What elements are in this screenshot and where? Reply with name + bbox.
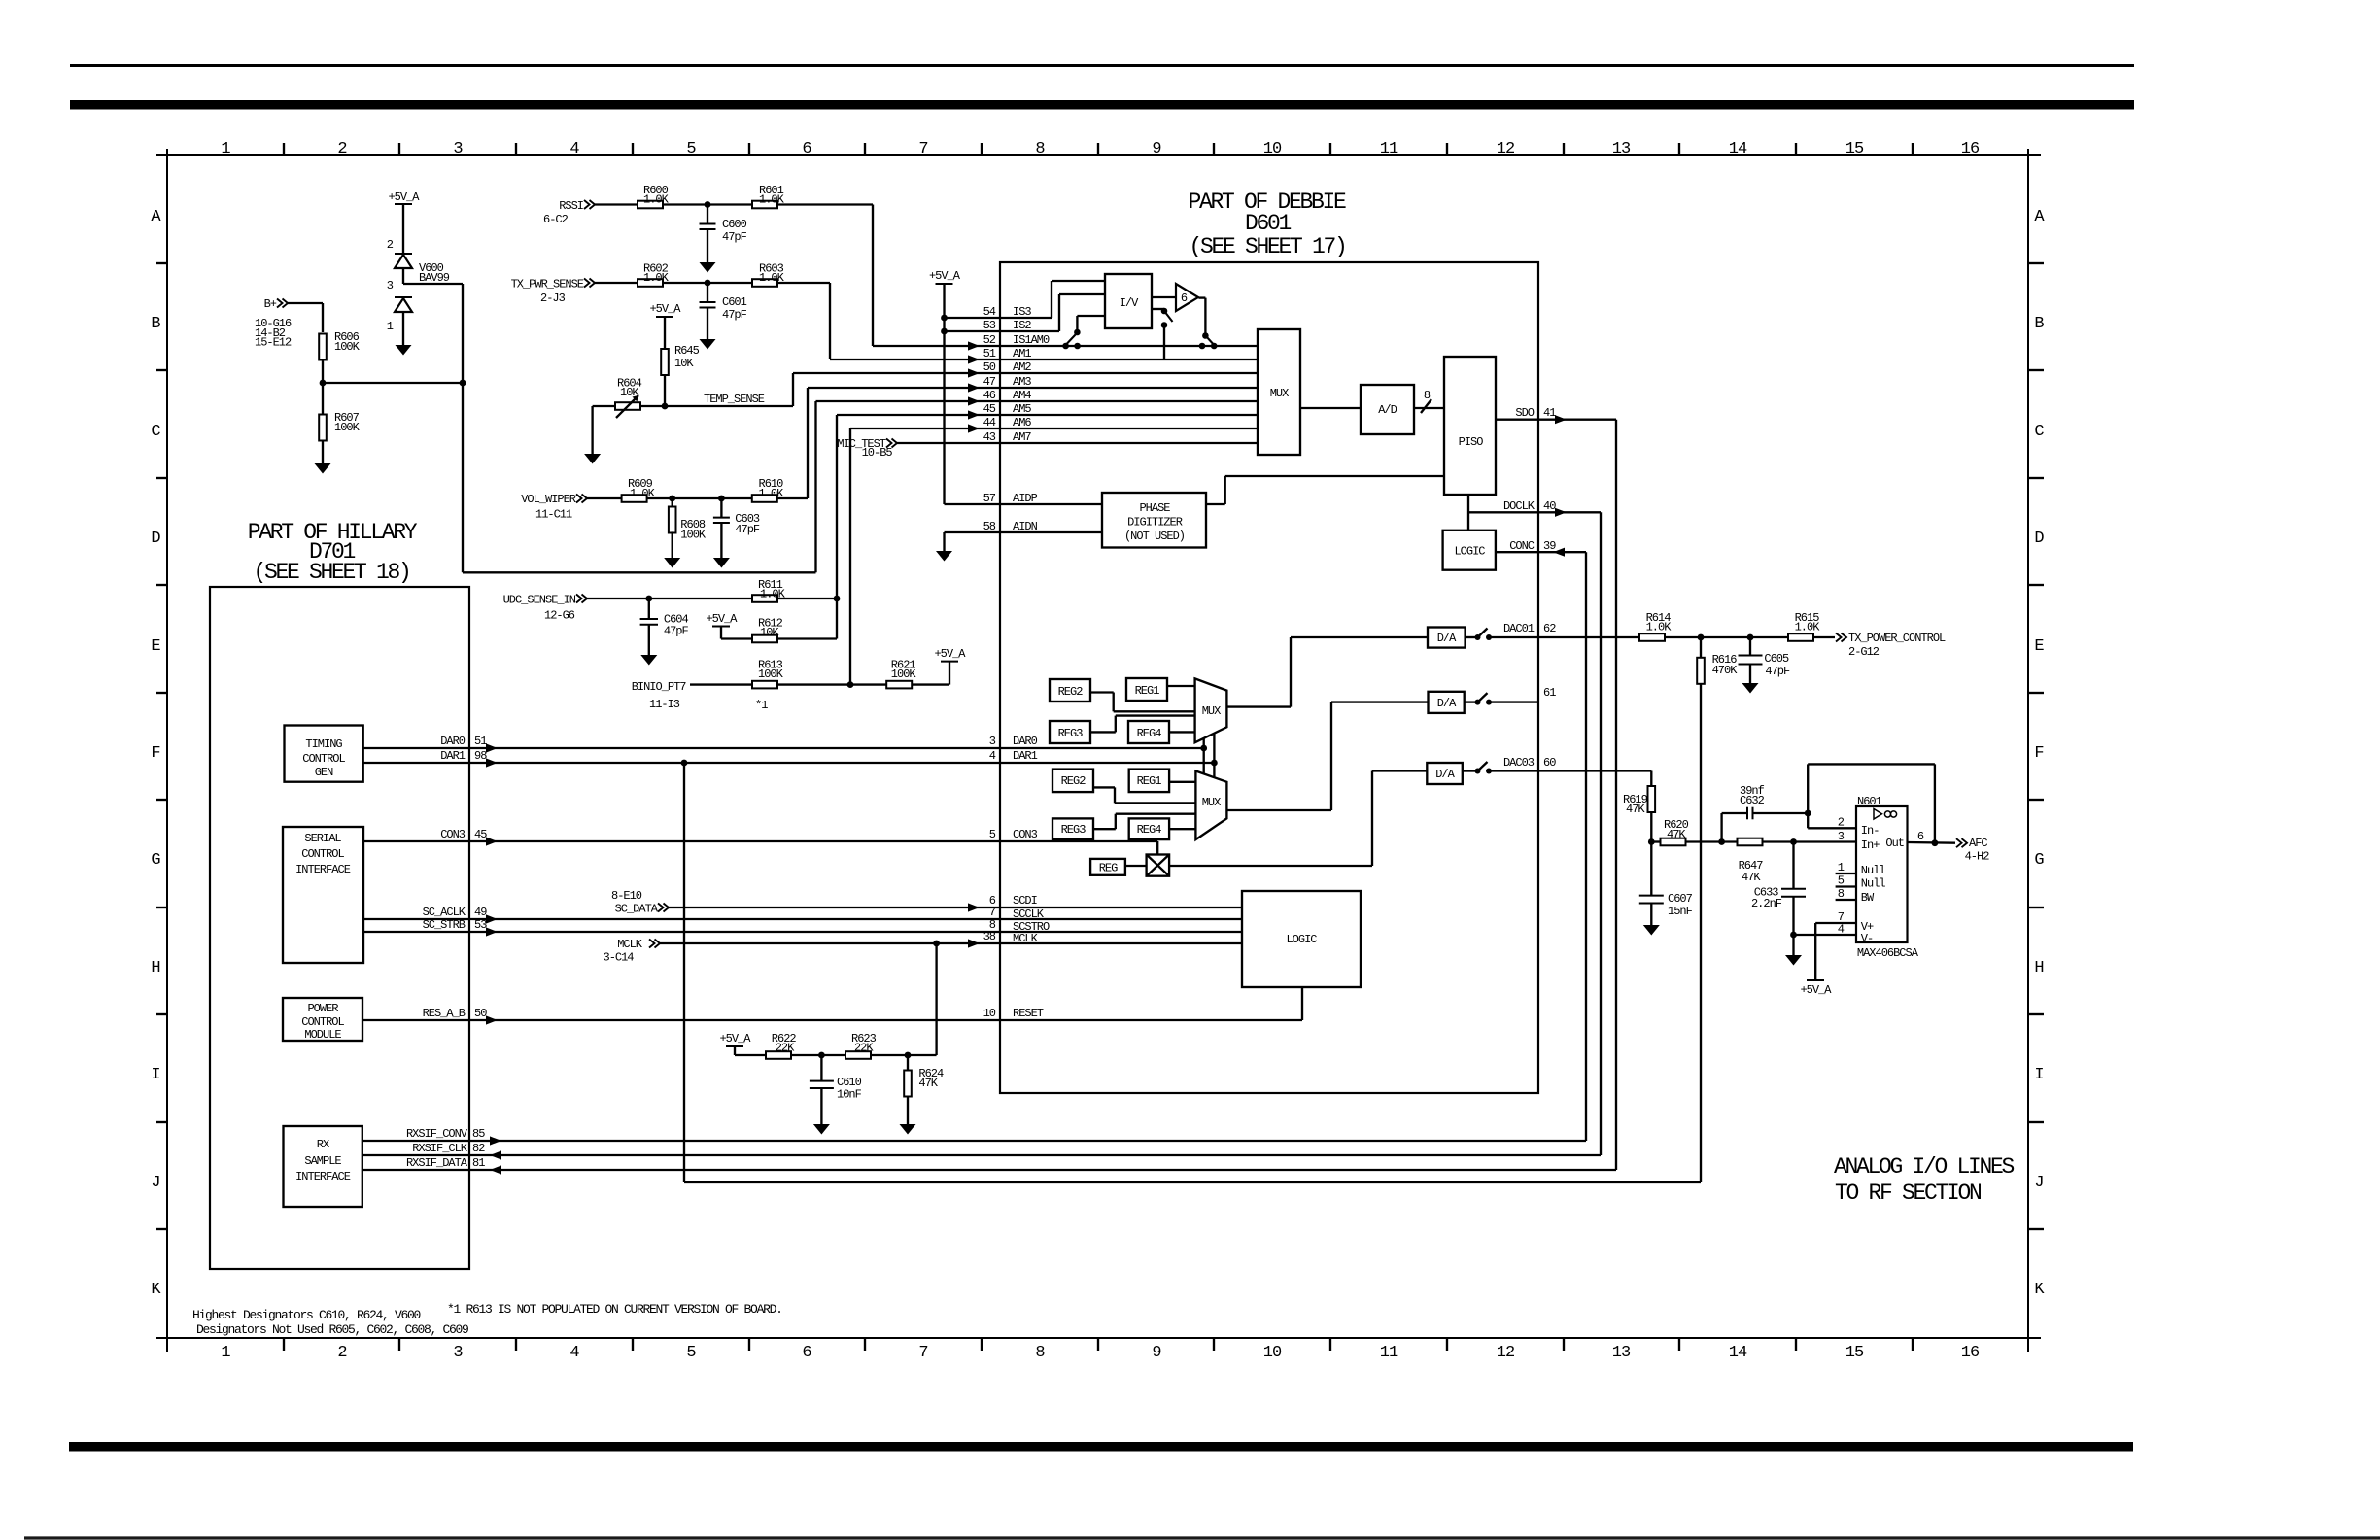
svg-text:47: 47	[983, 375, 996, 389]
svg-text:15-E12: 15-E12	[255, 336, 292, 350]
register REG1 lower	[1129, 770, 1169, 793]
mux trapezoid lower	[1195, 771, 1226, 840]
power +5V_A R612	[712, 626, 730, 628]
svg-text:REG2: REG2	[1061, 774, 1087, 788]
select stubs DAR0 DAR1 to muxes	[1203, 738, 1205, 774]
resistor R602	[638, 279, 663, 287]
ground arrow V600	[396, 345, 412, 356]
resistor R614	[1639, 633, 1665, 641]
svg-text:12: 12	[1497, 1344, 1514, 1362]
svg-text:11: 11	[1380, 1344, 1398, 1362]
svg-text:100K: 100K	[334, 421, 361, 434]
svg-text:POWER: POWER	[307, 1002, 338, 1015]
svg-text:+5V_A: +5V_A	[929, 269, 961, 283]
svg-text:MUX: MUX	[1202, 796, 1221, 809]
svg-text:57: 57	[983, 492, 996, 505]
svg-text:6: 6	[1181, 291, 1188, 305]
svg-text:J: J	[151, 1174, 159, 1192]
svg-text:(SEE SHEET 17): (SEE SHEET 17)	[1189, 234, 1345, 259]
svg-text:D: D	[2034, 530, 2044, 548]
svg-text:*1 R613 IS NOT POPULATED ON CU: *1 R613 IS NOT POPULATED ON CURRENT VERS…	[447, 1302, 782, 1317]
pin 53 SC_STRB row / SCSTRO	[469, 931, 1242, 933]
ground arrow C607	[1643, 925, 1660, 936]
pin 52 IS1AM0	[873, 345, 1258, 347]
svg-text:14: 14	[1729, 140, 1747, 158]
svg-text:22K: 22K	[854, 1042, 874, 1055]
svg-text:10K: 10K	[674, 357, 694, 370]
svg-text:15nF: 15nF	[1668, 905, 1693, 918]
svg-text:4: 4	[569, 140, 579, 158]
register REG4 upper	[1128, 721, 1169, 743]
power +5V_A rail top left	[395, 203, 412, 205]
svg-text:DAC01: DAC01	[1503, 622, 1535, 635]
logic box small	[1443, 530, 1496, 570]
svg-text:RES_A_B: RES_A_B	[423, 1007, 466, 1020]
svg-text:9: 9	[1152, 1344, 1161, 1362]
svg-text:PHASE: PHASE	[1139, 501, 1170, 515]
svg-text:A/D: A/D	[1378, 403, 1397, 417]
svg-text:47pF: 47pF	[722, 230, 747, 244]
svg-text:MUX: MUX	[1270, 387, 1289, 400]
switch 61	[1465, 701, 1476, 702]
register REG1 upper	[1126, 678, 1167, 701]
capacitor C605	[1749, 637, 1751, 656]
wire rx iface to edge	[362, 1140, 469, 1142]
output TX_POWER_CONTROL	[1813, 636, 1835, 638]
svg-text:AM4: AM4	[1013, 389, 1031, 402]
svg-text:AM7: AM7	[1013, 430, 1031, 444]
svg-text:TO RF SECTION: TO RF SECTION	[1835, 1181, 1981, 1206]
pin 50 AM2	[793, 372, 1258, 374]
wires REG lower group	[1169, 781, 1195, 783]
register REG3 upper	[1050, 721, 1090, 743]
svg-text:DAR0: DAR0	[1013, 735, 1038, 748]
wire	[663, 203, 752, 205]
pin 62 DAC01 wire	[1489, 636, 1639, 638]
resistor R624	[907, 1055, 909, 1072]
svg-text:12: 12	[1497, 140, 1514, 158]
mux trapezoid upper	[1195, 678, 1227, 742]
svg-text:4: 4	[569, 1344, 579, 1362]
bus A/D to PISO width 8	[1414, 407, 1444, 409]
power +5V_A R621	[941, 661, 958, 663]
svg-text:B: B	[2034, 315, 2044, 333]
pin 54 IS3	[945, 317, 1052, 319]
switch amp output to IS1AM0	[1198, 296, 1205, 298]
wire BINIO node to pin44	[849, 428, 851, 685]
svg-text:IS3: IS3	[1013, 305, 1031, 319]
op-amp I/V box	[1105, 274, 1152, 328]
svg-text:8: 8	[1035, 1344, 1045, 1362]
svg-text:11: 11	[1380, 140, 1398, 158]
diode V600 lower	[395, 296, 412, 298]
svg-text:D/A: D/A	[1435, 768, 1455, 781]
pin 47 AM3	[808, 387, 1258, 389]
svg-text:SC_STRB: SC_STRB	[423, 918, 466, 932]
wire lower MUX out to D/A 61	[1226, 809, 1331, 811]
svg-text:REG1: REG1	[1137, 774, 1162, 788]
switch DAC03	[1463, 770, 1476, 771]
svg-text:TEMP_SENSE: TEMP_SENSE	[704, 393, 765, 406]
svg-text:(NOT USED): (NOT USED)	[1124, 530, 1185, 543]
svg-text:SC_DATA: SC_DATA	[615, 903, 659, 916]
svg-text:2-G12: 2-G12	[1848, 645, 1880, 659]
svg-text:REG1: REG1	[1135, 684, 1160, 698]
pin 85 RXSIF_CONV row	[469, 1140, 1586, 1142]
wire timing gen to edge	[363, 747, 469, 749]
svg-text:+5V_A: +5V_A	[934, 647, 966, 661]
svg-text:D/A: D/A	[1437, 632, 1457, 645]
svg-text:H: H	[151, 959, 159, 977]
svg-text:Highest Designators C610, R624: Highest Designators C610, R624, V600	[192, 1308, 421, 1322]
resistor R611	[752, 595, 777, 602]
switch I/V input from IS1AM0	[1077, 315, 1105, 317]
ground arrow C633	[1792, 935, 1794, 955]
svg-text:BINIO_PT7: BINIO_PT7	[632, 680, 687, 694]
converter D/A DAC01	[1428, 628, 1466, 648]
svg-text:MAX406BCSA: MAX406BCSA	[1857, 946, 1919, 960]
svg-text:16: 16	[1961, 1344, 1980, 1362]
svg-text:REG4: REG4	[1137, 823, 1162, 837]
svg-text:F: F	[151, 744, 159, 763]
pin 41 SDO	[1496, 419, 1616, 421]
pin 46 AM4	[816, 400, 1259, 402]
capacitor C601	[707, 283, 708, 302]
svg-text:VOL_WIPER: VOL_WIPER	[521, 493, 576, 506]
svg-text:D/A: D/A	[1437, 697, 1457, 710]
svg-text:51: 51	[474, 735, 487, 748]
svg-text:49: 49	[474, 906, 487, 919]
svg-text:E: E	[151, 637, 160, 656]
wire upper MUX out to D/A DAC01	[1226, 705, 1291, 707]
resistor R609	[622, 495, 647, 502]
svg-text:C605: C605	[1764, 652, 1789, 666]
wire UDC node to pin45	[836, 415, 838, 599]
register REG single	[1090, 859, 1125, 875]
pin 61 wire	[1489, 701, 1538, 702]
svg-text:2.2nF: 2.2nF	[1751, 897, 1782, 910]
svg-text:53: 53	[983, 319, 996, 332]
svg-text:8: 8	[1838, 887, 1845, 901]
svg-text:C601: C601	[722, 295, 747, 309]
svg-text:2: 2	[1838, 816, 1845, 830]
svg-text:100K: 100K	[891, 667, 917, 681]
svg-text:DOCLK: DOCLK	[1503, 499, 1535, 513]
sheet frame	[166, 149, 168, 1352]
svg-text:6: 6	[802, 140, 811, 158]
power +5V_A pins 54-53	[936, 283, 953, 285]
svg-text:60: 60	[1543, 756, 1556, 770]
svg-text:TIMING: TIMING	[305, 737, 342, 751]
svg-text:RXSIF_CLK: RXSIF_CLK	[412, 1142, 468, 1155]
svg-text:45: 45	[983, 402, 996, 416]
resistor R600	[638, 201, 663, 209]
svg-text:10: 10	[1263, 1344, 1282, 1362]
register PISO box	[1444, 357, 1496, 495]
svg-text:R645: R645	[674, 344, 700, 358]
ground arrow C600	[700, 262, 716, 273]
svg-text:Null: Null	[1861, 877, 1886, 891]
svg-text:Out: Out	[1885, 837, 1904, 850]
mixer X box	[1147, 855, 1170, 876]
op-amp N601 box	[1856, 806, 1908, 942]
power +5V_A R645	[656, 316, 673, 318]
svg-text:DAC03: DAC03	[1503, 756, 1535, 770]
resistor R619	[1648, 786, 1656, 812]
switch DAC01	[1466, 636, 1476, 638]
multiplexer MUX analog	[1258, 329, 1300, 455]
svg-text:82: 82	[472, 1142, 485, 1155]
svg-text:4-H2: 4-H2	[1965, 850, 1990, 864]
capacitor C600	[707, 205, 708, 224]
svg-text:J: J	[2034, 1174, 2043, 1192]
resistor R608	[672, 498, 673, 508]
svg-text:E: E	[2034, 637, 2044, 656]
svg-text:47pF: 47pF	[722, 308, 747, 322]
wire PISO to LOGIC	[1467, 495, 1469, 530]
pin 45 CON3 row	[469, 840, 1157, 842]
pin 45 AM5	[837, 414, 1258, 416]
wire R601 to pin52	[777, 203, 873, 205]
register REG3 lower	[1052, 818, 1093, 839]
svg-text:41: 41	[1543, 406, 1556, 420]
svg-text:G: G	[151, 851, 160, 870]
capacitor C604	[648, 599, 650, 619]
pin 39 CONC	[1496, 551, 1586, 553]
svg-text:4: 4	[1838, 923, 1845, 937]
svg-text:2: 2	[337, 140, 346, 158]
svg-text:CONTROL: CONTROL	[301, 847, 344, 861]
svg-text:8: 8	[1035, 140, 1045, 158]
wire IS3 to I/V	[1051, 281, 1052, 318]
svg-text:40: 40	[1543, 499, 1556, 513]
svg-text:6: 6	[802, 1344, 811, 1362]
svg-text:16: 16	[1961, 140, 1980, 158]
pin 51 DAR0 row	[469, 747, 1204, 749]
pin 81 RXSIF_DATA row	[469, 1169, 1616, 1171]
wire IS2 to I/V	[1058, 294, 1060, 331]
svg-text:H: H	[2034, 959, 2043, 977]
resistor R606	[319, 334, 327, 360]
wire R610 to pin47	[777, 497, 808, 499]
svg-text:5: 5	[989, 828, 996, 841]
svg-text:2: 2	[387, 238, 394, 252]
svg-text:47pF: 47pF	[1765, 665, 1790, 678]
svg-text:B: B	[151, 315, 160, 333]
svg-text:CON3: CON3	[440, 828, 466, 841]
svg-text:14: 14	[1729, 1344, 1747, 1362]
pin 57 AIDP	[945, 503, 1103, 505]
svg-text:I: I	[151, 1066, 159, 1084]
potentiometer R604	[593, 405, 615, 407]
wire B+ junction to pin46	[463, 571, 816, 573]
IC D701 block outline	[210, 587, 469, 1269]
svg-text:85: 85	[472, 1127, 485, 1141]
amplifier triangle gain 6	[1176, 284, 1198, 311]
pin 51 AM1	[830, 359, 1258, 360]
svg-text:D601: D601	[1245, 211, 1292, 236]
svg-text:(SEE SHEET 18): (SEE SHEET 18)	[253, 560, 409, 585]
svg-text:15: 15	[1845, 140, 1864, 158]
svg-text:10: 10	[983, 1007, 996, 1020]
svg-text:UDC_SENSE_IN: UDC_SENSE_IN	[503, 593, 576, 606]
svg-text:DIGITIZER: DIGITIZER	[1127, 516, 1183, 530]
svg-text:15: 15	[1845, 1344, 1864, 1362]
svg-text:IS1AM0: IS1AM0	[1013, 333, 1050, 347]
svg-text:CONTROL: CONTROL	[301, 1015, 344, 1029]
svg-text:DAR0: DAR0	[440, 735, 466, 748]
svg-text:10K: 10K	[620, 386, 639, 399]
svg-text:6-C2: 6-C2	[543, 213, 569, 226]
svg-text:47K: 47K	[1742, 871, 1761, 884]
svg-text:10nF: 10nF	[837, 1088, 862, 1102]
svg-text:AM2: AM2	[1013, 360, 1031, 374]
svg-text:CONC: CONC	[1509, 539, 1535, 553]
svg-text:REG3: REG3	[1058, 727, 1084, 740]
wire feedback loop	[1807, 764, 1809, 813]
svg-text:3: 3	[989, 735, 996, 748]
svg-text:SC_ACLK: SC_ACLK	[423, 906, 466, 919]
svg-text:C: C	[2034, 423, 2044, 441]
svg-text:38: 38	[983, 930, 996, 943]
svg-text:44: 44	[983, 416, 996, 429]
resistor R647	[1738, 838, 1763, 846]
resistor R615	[1788, 633, 1813, 641]
svg-text:AM1: AM1	[1013, 347, 1031, 360]
svg-text:+5V_A: +5V_A	[388, 190, 420, 204]
svg-text:I: I	[2034, 1066, 2043, 1084]
pin 7 V+	[1815, 922, 1856, 924]
svg-text:SAMPLE: SAMPLE	[304, 1154, 341, 1168]
switch amp to AM1 line	[1152, 308, 1164, 310]
ground arrow R604	[591, 406, 593, 454]
svg-text:In+: In+	[1861, 838, 1880, 852]
rx sample interface box	[284, 1126, 362, 1207]
wires REG upper group	[1166, 685, 1194, 687]
svg-text:1.0K: 1.0K	[1795, 621, 1821, 634]
svg-text:SDO: SDO	[1515, 406, 1534, 420]
svg-text:C607: C607	[1668, 892, 1693, 906]
wire MCLK branch	[935, 943, 937, 1055]
svg-text:AIDP: AIDP	[1013, 492, 1038, 505]
resistor R610	[752, 495, 777, 502]
svg-text:8: 8	[1424, 389, 1431, 402]
diode V600 upper	[395, 253, 412, 255]
svg-text:C600: C600	[722, 218, 747, 231]
svg-text:D: D	[151, 530, 160, 548]
pin 2 In-	[1808, 827, 1856, 829]
capacitor C607	[1650, 842, 1652, 896]
svg-text:10K: 10K	[760, 626, 779, 639]
resistor R601	[752, 201, 777, 209]
svg-text:3: 3	[453, 1344, 463, 1362]
resistor R622	[766, 1051, 791, 1059]
svg-text:In-: In-	[1861, 824, 1880, 838]
ground arrow C605	[1742, 683, 1759, 694]
svg-text:MUX: MUX	[1202, 704, 1221, 718]
wire mixer to D/A DAC03	[1169, 865, 1372, 867]
svg-text:9: 9	[1152, 140, 1161, 158]
svg-text:47K: 47K	[918, 1077, 938, 1090]
svg-text:470K: 470K	[1712, 664, 1739, 677]
svg-text:11-I3: 11-I3	[649, 698, 680, 711]
svg-text:AFC: AFC	[1969, 837, 1987, 850]
svg-text:TX_POWER_CONTROL: TX_POWER_CONTROL	[1848, 632, 1946, 645]
pin 53 IS2	[945, 330, 1060, 332]
svg-text:SCCLK: SCCLK	[1013, 907, 1045, 921]
pin 44 AM6	[850, 428, 1258, 429]
phase digitizer box	[1102, 493, 1206, 548]
register REG4 lower	[1129, 818, 1169, 839]
svg-text:GEN: GEN	[315, 766, 333, 779]
svg-text:REG4: REG4	[1137, 727, 1162, 740]
svg-text:61: 61	[1543, 686, 1556, 700]
ground arrow C603	[713, 558, 730, 568]
svg-text:50: 50	[474, 1007, 487, 1020]
svg-text:43: 43	[983, 430, 996, 444]
svg-text:5: 5	[1838, 874, 1845, 888]
svg-text:REG: REG	[1099, 862, 1118, 875]
svg-text:AM5: AM5	[1013, 402, 1031, 416]
pin 1 Null	[1836, 873, 1856, 874]
svg-text:62: 62	[1543, 622, 1556, 635]
wire serial iface to edge	[363, 840, 469, 842]
svg-text:7: 7	[989, 906, 996, 919]
register REG2 lower	[1052, 770, 1093, 793]
svg-text:V-: V-	[1861, 932, 1873, 945]
ground arrow R607	[315, 463, 331, 474]
svg-text:MCLK: MCLK	[1013, 932, 1039, 945]
svg-text:100K: 100K	[758, 667, 784, 681]
svg-text:CON3: CON3	[1013, 828, 1038, 841]
resistor R620	[1651, 840, 1661, 842]
svg-text:50: 50	[983, 360, 996, 374]
svg-text:11-C11: 11-C11	[535, 507, 572, 521]
svg-text:IS2: IS2	[1013, 319, 1031, 332]
svg-text:3: 3	[453, 140, 463, 158]
svg-text:10-B5: 10-B5	[862, 446, 893, 460]
svg-text:MCLK: MCLK	[617, 938, 643, 951]
svg-text:BW: BW	[1861, 891, 1875, 905]
svg-text:3-C14: 3-C14	[604, 951, 635, 965]
svg-text:51: 51	[983, 347, 996, 360]
svg-text:58: 58	[983, 520, 996, 533]
svg-text:F: F	[2034, 744, 2043, 763]
wire power module to edge	[362, 1019, 469, 1021]
ground arrow C610	[813, 1124, 830, 1135]
svg-text:13: 13	[1612, 1344, 1631, 1362]
wire R603 to pin51	[777, 282, 830, 284]
converter A/D box	[1361, 385, 1414, 434]
svg-text:LOGIC: LOGIC	[1454, 545, 1485, 559]
svg-text:AM3: AM3	[1013, 375, 1031, 389]
svg-text:52: 52	[983, 333, 996, 347]
svg-text:47K: 47K	[1626, 803, 1645, 816]
svg-text:CONTROL: CONTROL	[302, 752, 345, 766]
power +5V_A N601	[1814, 923, 1816, 980]
svg-text:B+: B+	[264, 297, 277, 311]
timing control gen box	[285, 726, 363, 782]
converter D/A DAC03	[1427, 763, 1463, 784]
svg-text:AM6: AM6	[1013, 416, 1031, 429]
pin 60 DAC03 wire	[1489, 770, 1651, 771]
ground arrow AIDN	[936, 551, 952, 562]
svg-text:10: 10	[1263, 140, 1282, 158]
svg-text:SCDI: SCDI	[1013, 894, 1037, 907]
ground arrow C601	[700, 339, 716, 350]
wire rssi	[595, 203, 638, 205]
svg-text:I/V: I/V	[1120, 296, 1139, 310]
